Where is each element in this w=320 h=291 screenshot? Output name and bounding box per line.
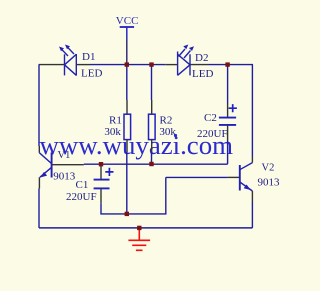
junction dot R2 bottom	[149, 162, 153, 166]
resistor R2	[149, 114, 156, 139]
junction dot R1 bottom	[125, 212, 129, 216]
wire R1 top lead	[126, 65, 128, 100]
pin V2 emitter black	[251, 191, 253, 202]
pin C1 bottom black	[100, 188, 102, 203]
ground symbol	[128, 228, 150, 250]
svg-text:9013: 9013	[258, 176, 281, 188]
pin R1 bottom black	[126, 140, 128, 152]
wire bottom rail	[39, 227, 252, 229]
svg-text:C1: C1	[76, 179, 89, 191]
V2 emitter diagonal	[240, 182, 253, 191]
wire V1 emitter to bottom rail	[38, 189, 40, 228]
wire rail right blue	[209, 64, 254, 66]
resistor R1	[124, 114, 131, 139]
wire D2 left pin black	[165, 64, 177, 66]
wire C1 bottom elbow	[101, 177, 166, 214]
svg-text:LED: LED	[192, 68, 213, 80]
wire R1 bottom lead crossing to lower node	[126, 152, 128, 214]
wire right vertical	[251, 65, 253, 157]
wire top rail left black segment	[39, 64, 65, 66]
wire D2 right pin black	[190, 64, 209, 66]
svg-text:V1: V1	[58, 150, 71, 161]
junction dot VCC/rail	[125, 62, 129, 66]
power port VCC bar	[120, 26, 134, 28]
junction dot ground	[137, 226, 141, 230]
plus sign C1	[105, 168, 113, 176]
pin R2 bottom black	[151, 140, 153, 152]
pin V1 collector black	[38, 146, 40, 153]
wire D1 right pin black	[76, 64, 90, 66]
transistor V1	[39, 153, 51, 178]
wire left vertical	[38, 65, 40, 146]
pin C2 bottom black	[227, 125, 229, 140]
wire V2 emitter to bottom rail	[251, 202, 253, 228]
V2 collector diagonal	[240, 163, 253, 170]
pin R2 top black	[151, 100, 153, 114]
pin V1 emitter black	[38, 177, 40, 188]
svg-text:VCC: VCC	[116, 15, 139, 27]
pin V1 base black	[52, 164, 84, 166]
svg-text:R1: R1	[109, 114, 122, 126]
V1 collector diagonal	[39, 153, 51, 164]
transistor V2	[240, 163, 253, 191]
capacitor C2	[219, 117, 236, 119]
LED D2 arrowheads	[183, 45, 188, 50]
wire C2 top lead	[227, 65, 229, 104]
svg-text:30k: 30k	[159, 126, 176, 138]
V1 emitter diagonal	[40, 167, 52, 177]
wire C2 bottom lead elbow	[226, 140, 229, 164]
LED D2	[178, 49, 191, 75]
LED D1	[62, 47, 77, 75]
wire R2 bottom lead	[151, 152, 153, 164]
wire rail middle blue	[90, 64, 165, 66]
svg-text:D1: D1	[82, 51, 95, 63]
capacitor C1	[94, 179, 110, 181]
svg-text:220UF: 220UF	[66, 191, 97, 203]
wire V2 base horizontal	[166, 176, 228, 178]
pin V2 base black	[228, 176, 240, 178]
wire V1 base node horizontal	[84, 163, 228, 165]
LED D1 arrowheads	[59, 47, 64, 52]
junction dot R2 top	[149, 62, 153, 66]
svg-text:D2: D2	[195, 52, 208, 64]
svg-text:C2: C2	[204, 112, 217, 124]
pin C2 top black	[227, 104, 229, 118]
junction dot C2 top	[225, 62, 229, 66]
svg-text:R2: R2	[160, 114, 173, 126]
junction dot C1 top	[99, 162, 103, 166]
svg-text:220UF: 220UF	[197, 128, 228, 140]
wire VCC stem	[126, 27, 128, 39]
svg-text:V2: V2	[262, 163, 275, 174]
V1 emitter arrowhead	[40, 172, 47, 178]
svg-text:LED: LED	[81, 68, 102, 80]
V2 base bar	[239, 165, 241, 191]
V2 emitter arrowhead	[244, 185, 251, 191]
plus sign C2	[229, 104, 237, 112]
pin R1 top black	[126, 100, 128, 114]
pin C1 top black	[100, 164, 102, 179]
wire R2 top lead	[151, 65, 153, 100]
svg-text:9013: 9013	[53, 171, 76, 183]
svg-text:30k: 30k	[104, 126, 121, 138]
V1 base bar	[51, 153, 53, 178]
pin V2 collector black	[251, 157, 253, 163]
